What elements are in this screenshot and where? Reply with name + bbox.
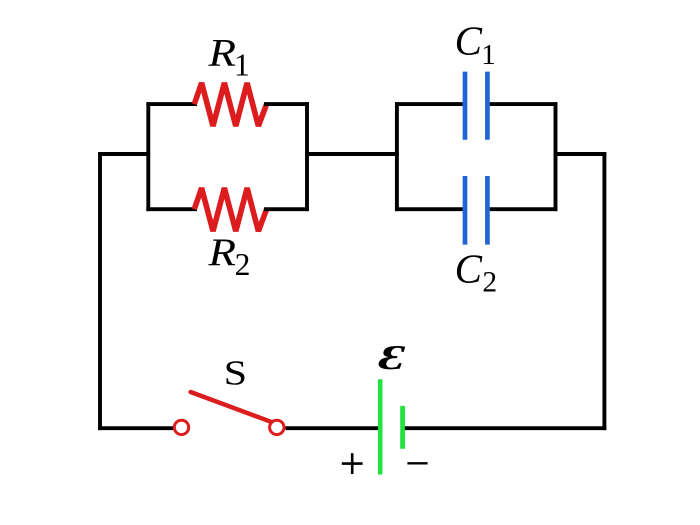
resistor R2 — [194, 188, 266, 231]
wire C2 right lead — [490, 207, 558, 211]
label EMF epsilon — [373, 338, 411, 377]
label minus polarity — [407, 462, 427, 464]
wire C1 right lead — [490, 102, 558, 106]
wire left vertical — [98, 152, 102, 430]
wire R1 left lead — [146, 102, 197, 106]
capacitor C2 — [465, 176, 487, 245]
wire switch to battery — [286, 426, 379, 430]
label R2 — [207, 231, 250, 282]
svg-text:1: 1 — [481, 39, 496, 71]
wire resistor box left side — [146, 102, 150, 211]
battery negative plate (short) — [400, 406, 405, 449]
wire R1 right lead — [264, 102, 309, 106]
wire battery to right vertical — [405, 426, 606, 430]
switch S lever — [191, 392, 272, 422]
wire capacitor box to right vertical — [554, 152, 607, 156]
svg-text:1: 1 — [234, 47, 250, 83]
wire between resistor box and capacitor box — [305, 152, 399, 156]
wire capacitor box left side — [395, 102, 399, 211]
wire C2 left lead — [395, 207, 463, 211]
wire R2 left lead — [146, 207, 197, 211]
label C1 — [455, 18, 496, 71]
wire node A horizontal (left vertical to resistor box) — [98, 152, 148, 156]
wire C1 left lead — [395, 102, 463, 106]
capacitor C1 — [465, 72, 487, 140]
switch S left contact — [174, 420, 188, 434]
svg-text:2: 2 — [235, 247, 251, 282]
switch S right contact — [270, 420, 284, 434]
resistor R1 — [194, 83, 266, 126]
svg-text:C: C — [455, 246, 483, 292]
svg-text:R: R — [207, 231, 236, 274]
label C2 — [455, 246, 498, 299]
label plus polarity — [342, 453, 363, 474]
svg-text:3: 3 — [373, 338, 411, 377]
svg-text:R: R — [207, 32, 236, 75]
wire bottom left segment — [98, 426, 173, 430]
label R1 — [207, 32, 250, 83]
svg-text:C: C — [455, 18, 483, 64]
svg-text:S: S — [224, 354, 248, 393]
svg-text:2: 2 — [482, 267, 497, 299]
wire capacitor box right side — [554, 102, 558, 211]
wire right vertical — [602, 152, 606, 430]
battery positive plate (long) — [378, 379, 383, 474]
wire resistor box right side — [305, 102, 309, 211]
wire R2 right lead — [264, 207, 309, 211]
